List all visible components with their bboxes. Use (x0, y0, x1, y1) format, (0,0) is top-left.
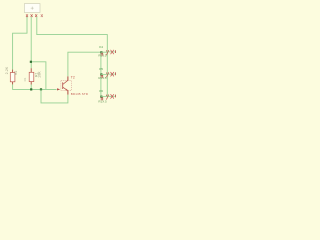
row wire K5 (101, 73, 115, 75)
svg-text:R1: R1 (23, 77, 27, 81)
pin 4 mark (unconnected) (41, 14, 43, 17)
pin tick K4 (115, 50, 117, 53)
switch arm K4 (106, 50, 109, 55)
svg-text:2.2K: 2.2K (5, 66, 9, 74)
coil bars K4 (101, 53, 103, 56)
contact X K6 (111, 94, 114, 98)
transistor T2 (61, 76, 71, 94)
wire branch junction to base column (31, 62, 46, 90)
svg-text:R1X.5: R1X.5 (98, 99, 107, 103)
junction dot K6 (100, 96, 102, 98)
collector wire (68, 52, 101, 76)
row wire K4 (101, 51, 115, 53)
svg-text:10K: 10K (37, 71, 41, 78)
pin tick K6 (115, 95, 117, 98)
resistor R1 (23, 68, 42, 84)
wire pin2 to R1 (30, 17, 32, 69)
wire pin1 to R2 (13, 17, 27, 70)
svg-text:R2: R2 (14, 70, 18, 75)
wire R1 bottom to rail (30, 85, 32, 90)
junction dot A (30, 61, 32, 63)
svg-text:T2: T2 (71, 75, 75, 79)
svg-text:K6: K6 (99, 89, 103, 93)
background (0, 0, 120, 106)
base arrow into T2 (57, 88, 60, 90)
relay row K5 (98, 67, 115, 80)
pin tick K5 (115, 72, 117, 75)
junction dot V2-rail (40, 88, 42, 90)
coil bars K6 (101, 97, 103, 100)
emitter return wire (41, 89, 68, 103)
pin 1 mark (26, 14, 28, 17)
svg-text:R13.5: R13.5 (98, 54, 106, 58)
bottom rail to base (13, 84, 57, 89)
switch arm K5 (106, 72, 109, 77)
pin 3 mark (35, 14, 37, 17)
relay row K4 (98, 45, 115, 58)
connector J1 box (24, 4, 40, 13)
svg-text:BD135 STD: BD135 STD (71, 92, 88, 96)
svg-text:R13.5: R13.5 (98, 76, 106, 80)
svg-text:K4: K4 (99, 45, 103, 49)
junction dot R1-rail (30, 88, 32, 90)
junction dot K5 (100, 73, 102, 75)
relay column verticals (100, 52, 102, 97)
resistor R2 (5, 66, 18, 84)
contact X K4 (111, 50, 114, 54)
junction dot K4 (100, 51, 102, 53)
contact X K5 (111, 72, 114, 76)
relay row K6 (98, 89, 115, 103)
pin 2 mark (31, 14, 33, 17)
switch arm K6 (106, 95, 109, 100)
wire pin3 to relay column (37, 17, 108, 52)
coil bars K5 (101, 75, 103, 78)
row wire K6 (101, 95, 115, 97)
svg-text:K5: K5 (99, 67, 103, 71)
